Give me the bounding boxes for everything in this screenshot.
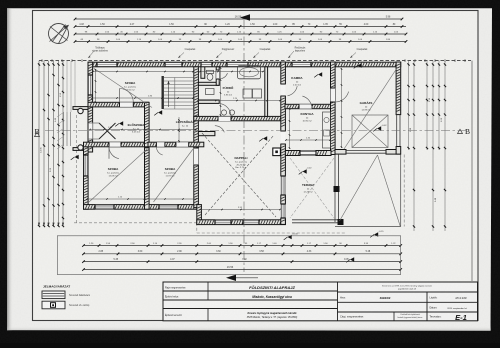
- walkway lines: [66, 61, 68, 112]
- door konyha-kamra: [299, 104, 312, 108]
- window wc top: [201, 62, 212, 67]
- szoba top diagonal: [94, 68, 153, 108]
- sheet frame: [33, 11, 479, 321]
- section arrow bottom: [226, 275, 236, 281]
- wall garage bottom right stub: [386, 150, 400, 155]
- garage car space: [352, 115, 388, 148]
- legend symbol column: [42, 301, 65, 309]
- wall furdo right: [265, 67, 268, 117]
- door garage: [331, 88, 336, 102]
- wall konyha bottom: [285, 151, 331, 156]
- window wing left: [84, 155, 89, 176]
- wall hall top: [88, 102, 148, 107]
- section line B-B: [45, 130, 466, 132]
- fence post ticks: [41, 59, 43, 62]
- wc partition: [201, 67, 205, 79]
- wall garage bottom left stub: [335, 150, 346, 155]
- porch stub top: [73, 107, 88, 110]
- door furdo: [218, 116, 231, 121]
- wall kamra/konyha/nappali right: [281, 62, 286, 84]
- window nappali east 2: [281, 204, 286, 218]
- legend symbol wall: [42, 291, 65, 299]
- mosdo cell bottom: [198, 100, 219, 103]
- door wc: [216, 70, 219, 79]
- washbasins: [221, 110, 226, 115]
- exterior wall nappali bottom: [197, 220, 286, 225]
- window stairs top: [165, 62, 182, 67]
- nappali dashed X: [202, 133, 276, 217]
- bathtub: [238, 66, 261, 79]
- washer: [243, 89, 252, 98]
- kitchen counter: [323, 112, 331, 148]
- entry steps: [63, 112, 65, 146]
- wall furdo bottom: [194, 116, 285, 120]
- compass: [49, 24, 69, 44]
- interior dim chains: [92, 97, 193, 99]
- window szoba top: [97, 62, 117, 67]
- wall wc bottom: [198, 82, 219, 85]
- exterior wall wing left: [84, 143, 89, 209]
- terrace column 1: [334, 186, 340, 192]
- left dimension chains: [38, 61, 40, 226]
- plot boundary line: [39, 60, 471, 62]
- window kamra top: [292, 62, 311, 67]
- staircase: [164, 77, 194, 79]
- right dimension chains: [408, 61, 410, 150]
- section arrow top: [240, 14, 250, 20]
- terrace edge bottom: [292, 219, 344, 221]
- window nappali bottom 2: [243, 220, 259, 225]
- window wing bottom 1: [95, 205, 114, 210]
- wall nappali jog: [197, 205, 202, 225]
- exterior wall top: [88, 62, 401, 67]
- terrace column 2: [338, 219, 344, 225]
- wall garage left: [331, 62, 336, 155]
- garage diagonal: [344, 68, 397, 149]
- door kamra: [281, 84, 286, 96]
- bottom dimension chains: [84, 245, 401, 247]
- door szoba1: [109, 142, 121, 147]
- bottom dim block box: [57, 236, 400, 275]
- wall mid vertical: [194, 67, 199, 208]
- margin shadows: [7, 8, 13, 330]
- section line A-A: [243, 20, 245, 272]
- garage door opening: [346, 150, 386, 152]
- roof overhang dashes: [74, 222, 197, 224]
- title block: [163, 282, 478, 321]
- wall szoba2 left: [145, 148, 150, 209]
- door hall-szoba top: [120, 102, 134, 107]
- window furdo top: [227, 62, 248, 67]
- basin cell: [206, 89, 215, 95]
- column ring top: [78, 108, 83, 113]
- passage corridor: [176, 142, 189, 147]
- wall kamra bottom: [285, 104, 331, 108]
- wall eloszoba/stair divider: [145, 102, 150, 147]
- garage right window band: [396, 115, 398, 147]
- level flags: [119, 121, 123, 126]
- door opening terasz: [300, 151, 316, 156]
- window wing bottom 2: [159, 205, 178, 210]
- paper noise: [0, 0, 1, 1]
- window nappali east 1: [281, 176, 286, 195]
- wall stairs left: [162, 76, 164, 109]
- door szoba2: [156, 142, 165, 147]
- passage nappali: [194, 148, 199, 165]
- szoba1 diagonal: [89, 149, 147, 202]
- window nappali bottom 1: [215, 220, 231, 225]
- chimney: [273, 148, 281, 156]
- wall wing top right part: [148, 142, 204, 147]
- exterior wall left upper: [88, 62, 93, 152]
- terrace edge right: [334, 154, 336, 222]
- exterior wall garage right: [396, 62, 401, 115]
- opening konyha-nappali: [281, 131, 286, 144]
- toilet: [207, 70, 214, 73]
- wall wc right: [216, 67, 219, 86]
- column ring bottom: [78, 145, 83, 150]
- terasz dashed X: [290, 158, 334, 218]
- porch stub bottom: [73, 148, 88, 151]
- exterior wall wing bottom: [84, 205, 199, 210]
- driveway edges: [400, 155, 402, 227]
- top dimension chains: [75, 18, 402, 20]
- entry door X: [88, 123, 93, 140]
- szoba2 diagonal: [154, 149, 194, 202]
- wall hall/wing: [84, 142, 149, 147]
- nappali closet stub: [198, 132, 215, 136]
- window szoba left: [88, 75, 93, 95]
